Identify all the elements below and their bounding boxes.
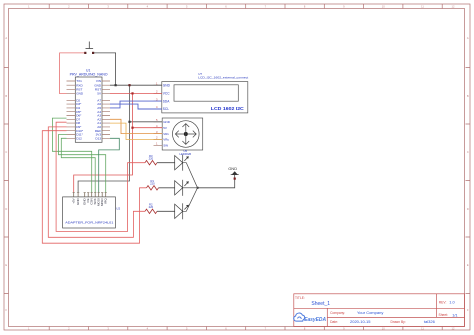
svg-text:SDA: SDA bbox=[163, 99, 170, 103]
svg-text:A: A bbox=[5, 36, 7, 40]
svg-text:220: 220 bbox=[150, 182, 155, 186]
svg-text:tal326: tal326 bbox=[424, 319, 436, 324]
svg-text:SW: SW bbox=[163, 144, 168, 148]
joystick U5 LEDRGB body bbox=[162, 118, 203, 156]
svg-text:LEDRGB: LEDRGB bbox=[180, 152, 192, 156]
IC U1 PRV_ARDUINO_NANO body bbox=[70, 68, 108, 142]
node (junction at GND2) bbox=[234, 178, 236, 180]
EasyEDA logo bbox=[294, 313, 326, 323]
svg-text:PRV_ARDUINO_NANO: PRV_ARDUINO_NANO bbox=[70, 72, 108, 76]
svg-text:D12: D12 bbox=[76, 136, 82, 140]
wire (dark, U1 GND right pin to LCD GND) bbox=[110, 84, 162, 86]
module U2 ADAPTER_FOR_NRF24L01 body bbox=[63, 197, 121, 228]
svg-text:U2: U2 bbox=[116, 207, 120, 211]
wire (gray branch to joystick GND pin) bbox=[130, 121, 163, 123]
wire (red, GND symbol to U1 left GND pin) bbox=[60, 53, 86, 94]
ground GND (right of LEDs) bbox=[228, 166, 239, 178]
svg-text:Your Company: Your Company bbox=[357, 310, 383, 315]
svg-text:D: D bbox=[5, 207, 7, 211]
wire (dark, R1 to LED2 anode) bbox=[159, 187, 175, 189]
pin stubs U1 left bbox=[67, 81, 76, 138]
node (junction, joystick 5V branch) bbox=[131, 127, 133, 129]
LED LED1 bbox=[175, 155, 189, 171]
pin numbers LCD bbox=[156, 81, 158, 109]
wire (dark, LED3 cathode diagonal to merge node) bbox=[183, 188, 198, 212]
svg-text:E: E bbox=[5, 263, 7, 267]
wire (blue, U1 A5 to LCD SDA) bbox=[110, 101, 162, 108]
svg-text:D13: D13 bbox=[95, 136, 101, 140]
wire (dark, R2 to LED3 anode) bbox=[157, 210, 175, 212]
svg-text:B: B bbox=[467, 94, 469, 98]
pin labels U2 (vertical) bbox=[72, 197, 108, 206]
module U? LCD_I2C_1602_external_connect body bbox=[162, 72, 249, 113]
svg-text:D: D bbox=[467, 207, 469, 211]
pin labels joystick bbox=[163, 120, 171, 148]
wire (dark, GND symbol right to U1 right GND pin column) bbox=[93, 53, 116, 85]
svg-text:U?: U? bbox=[198, 72, 202, 76]
pin labels U1 right bbox=[94, 79, 102, 140]
wire (green, U1 D12 to adapter pin) bbox=[61, 138, 95, 192]
wire (red loop, U1 D10* to R1) bbox=[42, 131, 146, 244]
svg-text:A: A bbox=[467, 36, 469, 40]
svg-text:LCD 1602 I2C: LCD 1602 I2C bbox=[211, 106, 244, 112]
svg-text:GND: GND bbox=[228, 166, 237, 171]
wire (red, U1 5V to LCD VCC) bbox=[110, 92, 162, 94]
svg-text:VRx: VRx bbox=[163, 132, 169, 136]
wire (blue, U1 A6 to LCD SCL) bbox=[110, 104, 162, 109]
svg-text:220: 220 bbox=[149, 157, 154, 161]
svg-text:GND: GND bbox=[76, 92, 84, 96]
node (LED cathode merge) bbox=[197, 187, 199, 189]
wire (green, U1 D13 to adapter pin) bbox=[99, 138, 120, 192]
node (junction, joystick GND branch) bbox=[128, 121, 130, 123]
wire (orange, U1 A1 to joystick VRy) bbox=[110, 123, 162, 139]
wire (red loop, U1 D9* to R2) bbox=[48, 127, 145, 237]
wire (dark, LED2 cathode to merge node) bbox=[183, 187, 198, 189]
resistor R1 bbox=[147, 179, 159, 190]
svg-text:Sheet:: Sheet: bbox=[439, 313, 449, 317]
svg-text:2020-10-15: 2020-10-15 bbox=[350, 319, 371, 324]
svg-text:1/1: 1/1 bbox=[452, 312, 457, 317]
svg-text:GND: GND bbox=[163, 83, 171, 87]
pin stubs U2 top bbox=[73, 193, 107, 197]
LED LED3 bbox=[175, 203, 189, 219]
svg-text:Sheet_1: Sheet_1 bbox=[311, 301, 330, 307]
svg-text:5V: 5V bbox=[163, 126, 167, 130]
node (junction dark, GND vertical joins LCD GND wire) bbox=[115, 84, 117, 86]
svg-text:VRy: VRy bbox=[163, 138, 169, 142]
pin stubs U1 right bbox=[102, 81, 110, 138]
pin numbers joystick bbox=[156, 118, 158, 146]
svg-text:GND: GND bbox=[76, 197, 80, 205]
svg-text:Drawn By:: Drawn By: bbox=[391, 320, 406, 324]
svg-text:REV:: REV: bbox=[439, 300, 447, 304]
svg-text:ADAPTER_FOR_NRF24L01: ADAPTER_FOR_NRF24L01 bbox=[65, 220, 113, 224]
wire (gray, GND net down to joystick GND and adapter GND) bbox=[78, 85, 129, 192]
svg-text:SCL: SCL bbox=[163, 107, 169, 111]
svg-text:C: C bbox=[5, 150, 7, 154]
pin stubs LCD bbox=[154, 85, 162, 109]
node (junction, 5V drop on LCD VCC wire) bbox=[131, 92, 133, 94]
svg-text:+5V: +5V bbox=[72, 198, 76, 203]
svg-text:220: 220 bbox=[149, 205, 154, 209]
node (junction at GND symbol right) bbox=[92, 52, 94, 54]
svg-text:IRQ: IRQ bbox=[104, 198, 108, 204]
wire (green, U1 D7 to adapter pin) bbox=[52, 118, 91, 192]
node (junction, gray GND drop on LCD GND wire) bbox=[128, 84, 130, 86]
svg-text:E: E bbox=[467, 263, 469, 267]
svg-text:TITLE:: TITLE: bbox=[295, 296, 305, 300]
svg-text:GND: GND bbox=[163, 120, 171, 124]
wire (dark, LED1 cathode diagonal to merge node) bbox=[183, 163, 198, 188]
wire (red, 5V net down to joystick 5V and adapter +5V) bbox=[74, 93, 133, 192]
LED LED2 bbox=[175, 180, 189, 196]
wire (red branch to joystick 5V pin) bbox=[133, 127, 163, 129]
svg-text:1.0: 1.0 bbox=[449, 300, 455, 305]
svg-text:EasyEDA: EasyEDA bbox=[304, 317, 326, 323]
pin labels LCD bbox=[163, 83, 171, 111]
svg-text:VCC: VCC bbox=[163, 92, 170, 96]
node (junction at GND symbol left) bbox=[84, 52, 86, 54]
wire (orange, U1 A2 to joystick VRx) bbox=[110, 119, 162, 133]
wire (red loop, U1 D8 to R3) bbox=[56, 122, 145, 231]
resistor R3 bbox=[145, 154, 157, 165]
svg-text:Date:: Date: bbox=[330, 320, 338, 324]
svg-text:LCD_I2C_1602_external_connect: LCD_I2C_1602_external_connect bbox=[198, 76, 248, 80]
wire (green, U1 D11* to adapter pin) bbox=[59, 135, 106, 193]
pin stubs joystick bbox=[154, 122, 163, 146]
svg-text:Company:: Company: bbox=[330, 311, 345, 315]
TITLE BLOCK bbox=[294, 294, 465, 327]
resistor R2 bbox=[145, 202, 157, 213]
svg-text:B: B bbox=[5, 94, 7, 98]
ground GND (top, Arduino GND net) bbox=[86, 42, 94, 49]
wire (dark, R3 to LED1 anode) bbox=[157, 162, 175, 164]
svg-text:C: C bbox=[467, 150, 469, 154]
pin labels U1 left bbox=[76, 79, 84, 140]
wire (dark, merge node to GND symbol) bbox=[198, 179, 235, 188]
